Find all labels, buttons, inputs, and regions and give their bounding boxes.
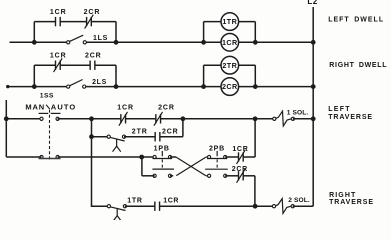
wire rung 2 branch top xyxy=(34,64,55,66)
svg-text:1TR: 1TR xyxy=(222,17,237,26)
svg-text:1CR: 1CR xyxy=(222,38,238,47)
wire coil branch 2TR left riser xyxy=(203,65,205,86)
node rung1 branch left xyxy=(32,40,37,45)
coil 1TR xyxy=(221,13,239,31)
contact 1CR (NC) rung 3 xyxy=(119,112,128,126)
wire rung 3 (rail to 1SS) xyxy=(6,118,41,120)
wire crossover diagonal (1PB bottom to 2PB top) xyxy=(176,157,205,175)
wire rung 1 branch right xyxy=(91,21,116,23)
contact 2CR (NO) 2TR row xyxy=(155,132,160,141)
wire rung 1 branch left riser xyxy=(33,22,35,43)
label LEFT TRAVERSE xyxy=(328,106,373,121)
svg-text:TRAVERSE: TRAVERSE xyxy=(328,114,373,121)
node rung3 at L2 rail xyxy=(311,116,316,121)
wire rung 3 (1SOL to rail) xyxy=(293,118,313,120)
node coil branch right rung2 xyxy=(253,84,258,89)
svg-text:2CR: 2CR xyxy=(222,82,238,91)
node rung1 at L2 rail xyxy=(311,40,316,45)
wire riser row A to rung 3 xyxy=(254,119,256,157)
coil 2TR xyxy=(221,56,239,74)
wire coil branch 1TR right riser xyxy=(254,22,256,43)
node rung2 left end xyxy=(6,85,9,88)
contact 2CR (NC) row B xyxy=(237,169,246,183)
wire row B (2PB pole2 to 2CR) xyxy=(225,175,238,177)
svg-text:2CR: 2CR xyxy=(232,166,248,173)
node rung2 branch right xyxy=(114,84,119,89)
wire crossover stub to 2PB pole1 xyxy=(206,156,209,158)
contact 1CR (NC) row A xyxy=(237,150,246,164)
svg-text:2 SOL.: 2 SOL. xyxy=(288,197,310,204)
svg-text:2LS: 2LS xyxy=(92,79,107,86)
svg-text:MAN: MAN xyxy=(25,103,45,112)
wire rung 3 (1SS to 1CR) xyxy=(58,118,121,120)
node rung3 to vertical feed xyxy=(89,116,94,121)
svg-text:2TR: 2TR xyxy=(132,128,148,135)
node rung3 2TR-branch junction xyxy=(181,116,186,121)
svg-text:RIGHT: RIGHT xyxy=(329,192,356,199)
svg-text:2CR: 2CR xyxy=(158,104,175,111)
svg-text:1TR: 1TR xyxy=(127,198,142,205)
wire row A stub after 1PB xyxy=(170,156,176,158)
contact 2CR (NC) rung 3 xyxy=(154,112,163,126)
wire riser row B down to bottom rung xyxy=(254,176,256,206)
node rung3 pushbutton feed junction xyxy=(253,116,258,121)
wire bottom rung (1CR to 2SOL) xyxy=(160,205,274,207)
wire row A (2PB to 1CR) xyxy=(225,156,238,158)
node 2TR-row at vertical feed xyxy=(89,134,94,139)
solenoid 2SOL xyxy=(272,199,294,214)
wire rung 2 main (2LS to L2 rail) xyxy=(84,86,313,88)
node coil branch left rung1 xyxy=(201,40,206,45)
svg-text:LEFT: LEFT xyxy=(328,106,351,113)
pushbutton 2PB xyxy=(205,146,228,178)
wire rung 1 branch top xyxy=(34,21,55,23)
wire 2TR row middle xyxy=(124,136,155,138)
wire coil branch 1TR left riser xyxy=(203,22,205,43)
wire rung 1 main (L1 to 1LS) xyxy=(10,41,69,43)
svg-text:1 SOL.: 1 SOL. xyxy=(287,109,309,116)
wire riser row A feed down to row B xyxy=(141,157,143,176)
wire 2TR row right xyxy=(160,136,183,138)
wire row B (2CR to riser) xyxy=(243,175,255,177)
pushbutton 1PB xyxy=(152,146,174,178)
wire rung 2 branch right riser xyxy=(115,65,117,86)
coil 2CR xyxy=(221,78,239,96)
contact 2CR (NO) rung 2 xyxy=(90,61,95,70)
svg-text:2CR: 2CR xyxy=(84,9,101,16)
wire vertical feed from rung3 node down past rows xyxy=(91,119,93,206)
timed contact 1TR (timer switch) xyxy=(107,205,126,222)
svg-text:1CR: 1CR xyxy=(163,198,179,205)
wire rung 3 (2CR to 1SOL) xyxy=(161,118,275,120)
wire coil branch 2TR top xyxy=(204,64,256,66)
solenoid 1SOL xyxy=(273,111,295,126)
wire crossover diagonal (1PB top to 2PB bottom) xyxy=(176,157,205,175)
node row A 1PB feed xyxy=(139,155,144,160)
svg-text:AUTO: AUTO xyxy=(51,103,77,112)
limit switch 1LS xyxy=(67,35,87,44)
wire rung 2 branch right xyxy=(95,64,116,66)
coil 1CR xyxy=(221,34,239,52)
svg-text:1CR: 1CR xyxy=(50,52,67,59)
wire row B (riser to 1PB pole2) xyxy=(142,175,155,177)
svg-text:LEFT DWELL: LEFT DWELL xyxy=(328,16,384,23)
svg-text:L2: L2 xyxy=(307,0,317,6)
wire coil branch 2TR right riser xyxy=(254,65,256,86)
wire 2TR row left xyxy=(92,136,109,138)
svg-text:2CR: 2CR xyxy=(85,52,102,59)
svg-text:1SS: 1SS xyxy=(40,93,54,100)
timed contact 2TR (timer switch) xyxy=(107,135,126,152)
svg-text:TRAVERSE: TRAVERSE xyxy=(329,199,374,206)
wire row B stub after 1PB pole2 xyxy=(170,175,173,177)
contact 1CR (NO) bottom rung xyxy=(155,202,160,211)
contact 2CR (NC) rung 1 xyxy=(85,15,94,29)
left rail L1 segment xyxy=(5,100,7,157)
node bottom rung riser junction xyxy=(253,204,258,209)
wire row A (1SS to 1PB) xyxy=(58,156,155,158)
node rung2 at L2 rail xyxy=(311,84,316,89)
right rail L2 xyxy=(312,7,314,206)
wire rung 2 branch left riser xyxy=(33,65,35,86)
svg-text:RIGHT DWELL: RIGHT DWELL xyxy=(329,62,387,69)
wire row A (rail to 1SS pole2) xyxy=(6,156,41,158)
wire rung 3 (1CR to 2CR) xyxy=(126,118,156,120)
wire rung 1 branch right riser xyxy=(115,22,117,43)
svg-text:1CR: 1CR xyxy=(232,146,248,153)
contact 1CR (NO) rung 1 xyxy=(56,17,61,26)
wire rung 1 main (1LS to L2 rail) xyxy=(85,41,313,43)
wire crossover stub to 2PB pole2 xyxy=(206,175,209,177)
limit switch 2LS xyxy=(67,80,86,89)
svg-text:2CR: 2CR xyxy=(162,128,179,135)
node coil branch right rung1 xyxy=(253,40,258,45)
wire rung 2 branch middle xyxy=(60,64,90,66)
node rung3 at left rail xyxy=(4,116,9,121)
label RIGHT TRAVERSE xyxy=(329,192,374,206)
wire bottom rung left (from vertical feed) xyxy=(91,205,109,207)
node coil branch left rung2 xyxy=(201,84,206,89)
wire coil branch 1TR top xyxy=(204,21,256,23)
svg-text:1CR: 1CR xyxy=(117,104,134,111)
selector switch 1SS xyxy=(25,93,76,160)
wire 2TR row riser to rung 3 xyxy=(182,119,184,137)
svg-text:2TR: 2TR xyxy=(222,61,237,70)
wire bottom rung (2SOL to rail) xyxy=(293,205,314,207)
svg-text:1LS: 1LS xyxy=(93,35,108,42)
node rung1 branch right xyxy=(114,40,119,45)
contact 1CR (NC) rung 2 xyxy=(54,58,63,72)
wire rung 1 branch middle xyxy=(60,21,86,23)
wire rung 2 main (L1 to 2LS) xyxy=(8,86,68,88)
wire bottom rung (1TR to 1CR) xyxy=(125,205,155,207)
svg-text:1CR: 1CR xyxy=(50,9,67,16)
node rung2 branch left xyxy=(32,84,37,89)
wire row A (1CR to riser) xyxy=(243,156,255,158)
